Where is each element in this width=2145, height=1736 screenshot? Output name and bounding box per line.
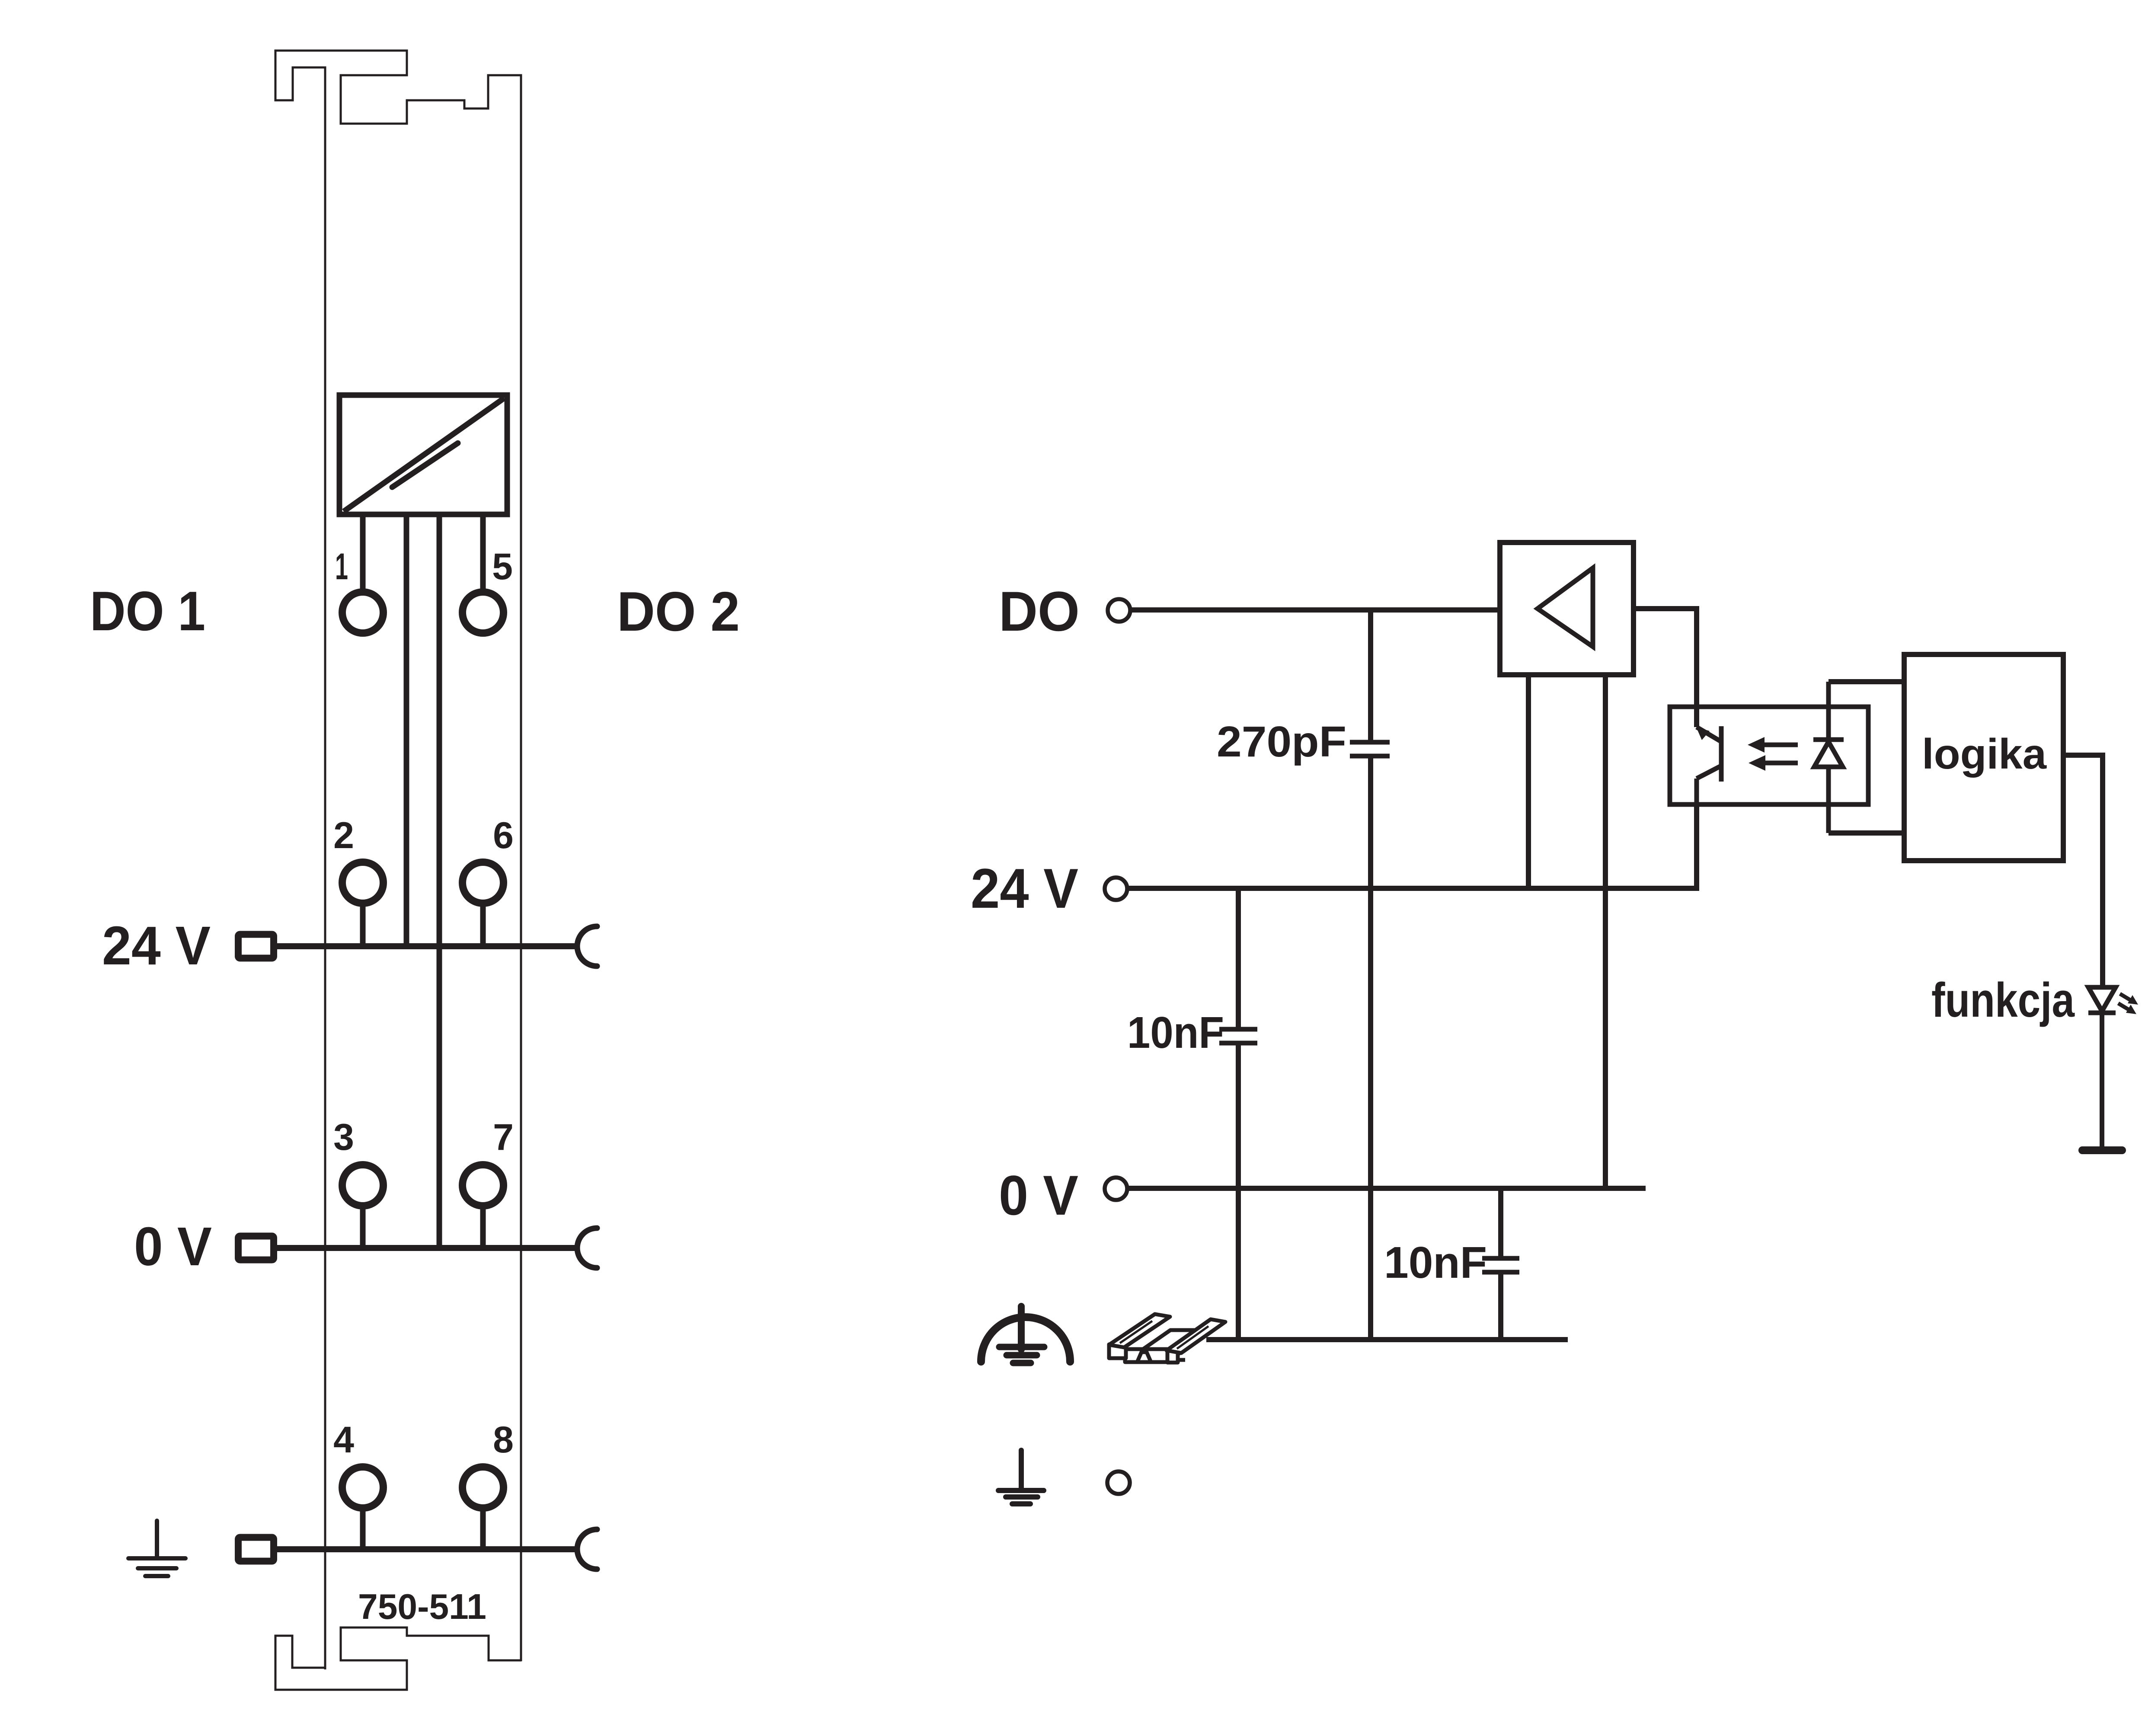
svg-text:24 V: 24 V bbox=[971, 857, 1078, 920]
24V rail bbox=[277, 943, 575, 949]
wire pin3 to 0V rail bbox=[437, 514, 442, 1248]
capacitor 270pF lower lead down to shield line bbox=[1368, 758, 1373, 1340]
terminal circle 7 bbox=[463, 1165, 504, 1206]
open terminal circle bottom bbox=[1107, 1471, 1130, 1494]
stem terminal 6 to 24V rail bbox=[480, 903, 486, 946]
output driver box bbox=[1500, 542, 1634, 675]
DIN rail icon bbox=[1109, 1314, 1225, 1363]
wire logika to function LED bbox=[2063, 755, 2103, 987]
stem terminal 2 to 24V rail bbox=[360, 903, 366, 946]
svg-text:1: 1 bbox=[335, 546, 348, 587]
stem terminal 8 to earth rail bbox=[480, 1507, 486, 1549]
svg-text:DO 1: DO 1 bbox=[90, 580, 205, 642]
terminal circle 1 bbox=[342, 592, 384, 633]
terminal circle 2 bbox=[342, 862, 384, 903]
svg-text:logika: logika bbox=[1922, 730, 2047, 778]
0V rail bbox=[277, 1245, 575, 1251]
capacitor 10nF second lower lead bbox=[1498, 1274, 1503, 1340]
capacitor 270pF upper lead bbox=[1368, 610, 1373, 740]
earth ground symbol right bbox=[998, 1450, 1044, 1504]
opto LED D1 bbox=[1813, 682, 1844, 833]
svg-text:DO: DO bbox=[999, 580, 1080, 643]
capacitor 10nF second upper lead bbox=[1498, 1188, 1503, 1256]
svg-text:8: 8 bbox=[493, 1419, 514, 1461]
module outline bottom profile bbox=[275, 1627, 521, 1690]
capacitor 10nF upper lead bbox=[1236, 888, 1241, 1027]
driver triangle bbox=[1538, 568, 1593, 647]
svg-text:DO 2: DO 2 bbox=[617, 581, 740, 643]
24V terminal square bbox=[238, 935, 274, 958]
wire driver left pin to 24V bbox=[1526, 675, 1531, 888]
svg-text:0 V: 0 V bbox=[999, 1164, 1078, 1227]
svg-text:2: 2 bbox=[333, 815, 354, 856]
svg-text:7: 7 bbox=[493, 1117, 514, 1158]
0V rail end arc bbox=[577, 1228, 597, 1268]
svg-text:6: 6 bbox=[493, 815, 514, 856]
0V wire right bbox=[1127, 1186, 1646, 1191]
capacitor 10nF lower lead bbox=[1236, 1045, 1241, 1340]
capacitor 10nF second plates bbox=[1482, 1256, 1519, 1261]
terminal circle 4 bbox=[342, 1467, 384, 1508]
wire driver box to optocoupler collector bbox=[1634, 609, 1697, 727]
wire opto bottom to logika bbox=[1829, 830, 1907, 836]
DO terminal circle bbox=[1108, 599, 1130, 622]
24V rail end arc bbox=[577, 926, 597, 966]
svg-text:5: 5 bbox=[492, 546, 513, 587]
terminal circle 6 bbox=[463, 862, 504, 903]
earth rail bbox=[277, 1546, 575, 1552]
logika box bbox=[1904, 654, 2063, 861]
shield bus line bbox=[1206, 1337, 1568, 1342]
capacitor 270pF plates bbox=[1350, 740, 1390, 745]
capacitor 10nF plates bbox=[1219, 1027, 1257, 1032]
svg-text:0 V: 0 V bbox=[134, 1216, 212, 1277]
LED light arrows bbox=[2118, 994, 2138, 1014]
driver box main diagonal bbox=[344, 398, 504, 511]
wire pin2 to 24V rail bbox=[404, 514, 409, 946]
phototransistor arrow head bbox=[1696, 727, 1710, 740]
wire 24V corner to opto emitter bbox=[1694, 804, 1699, 891]
0V terminal circle right bbox=[1105, 1178, 1127, 1200]
DO wire bbox=[1131, 607, 1497, 613]
wire pin1 to terminal 1 bbox=[360, 514, 366, 590]
24V wire right bbox=[1127, 886, 1699, 891]
svg-text:10nF: 10nF bbox=[1384, 1238, 1487, 1287]
light arrow upper bbox=[1763, 743, 1798, 747]
wire driver right pin to 0V bbox=[1603, 675, 1608, 1188]
terminal circle 8 bbox=[463, 1467, 504, 1508]
module outline top profile bbox=[275, 51, 521, 1669]
0V terminal square bbox=[238, 1236, 274, 1260]
terminal circle 5 bbox=[463, 592, 504, 633]
svg-text:funkcja: funkcja bbox=[1931, 973, 2075, 1027]
ground symbol left module bbox=[128, 1521, 185, 1576]
24V terminal circle right bbox=[1105, 878, 1127, 900]
optocoupler box bbox=[1670, 707, 1868, 804]
svg-text:3: 3 bbox=[333, 1117, 354, 1158]
phototransistor Q1 bbox=[1697, 726, 1721, 888]
stem terminal 3 to 0V rail bbox=[360, 1205, 366, 1248]
driver box short diagonal bbox=[392, 443, 458, 487]
chassis ground symbol bbox=[981, 1306, 1070, 1363]
svg-text:750-511: 750-511 bbox=[358, 1586, 486, 1627]
svg-text:10nF: 10nF bbox=[1127, 1008, 1224, 1057]
stem terminal 7 to 0V rail bbox=[480, 1205, 486, 1248]
svg-text:24 V: 24 V bbox=[102, 915, 211, 976]
earth terminal square bbox=[238, 1538, 274, 1561]
wire opto top to logika bbox=[1829, 679, 1907, 684]
LED ground bar bbox=[2082, 1146, 2122, 1154]
earth rail end arc bbox=[577, 1529, 597, 1569]
terminal circle 3 bbox=[342, 1165, 384, 1206]
stem terminal 4 to earth rail bbox=[360, 1507, 366, 1549]
wire pin4 to terminal 5 bbox=[480, 514, 486, 590]
power driver box U1 bbox=[339, 395, 507, 514]
function LED bbox=[2088, 987, 2116, 1148]
svg-text:4: 4 bbox=[333, 1419, 354, 1461]
light arrow lower bbox=[1764, 761, 1798, 766]
svg-text:270pF: 270pF bbox=[1217, 718, 1346, 766]
